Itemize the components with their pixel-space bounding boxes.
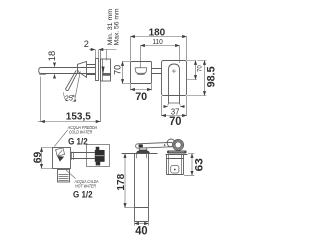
dim 69 <box>41 148 52 169</box>
svg-text:70: 70 <box>197 65 203 72</box>
svg-text:63: 63 <box>194 158 206 171</box>
knob circles <box>167 139 175 147</box>
svg-text:98.5: 98.5 <box>205 66 217 87</box>
svg-text:178: 178 <box>115 174 127 191</box>
svg-text:69: 69 <box>32 152 44 164</box>
svg-text:70: 70 <box>135 91 147 103</box>
spout mouth trough <box>135 68 147 74</box>
handle lever front <box>169 64 180 103</box>
spout base upper tier <box>139 148 147 151</box>
dim 98.5 <box>187 61 207 96</box>
arm grip dark square <box>139 144 143 147</box>
spout base lower tier <box>136 151 150 153</box>
spout base upper tier dark strip <box>139 150 147 151</box>
supply pipe plan <box>71 153 95 159</box>
cold water leader <box>54 130 68 147</box>
svg-text:2: 2 <box>84 39 89 49</box>
spout wall plate front <box>131 62 152 84</box>
wall bracket box <box>87 145 110 167</box>
in-wall body box <box>101 59 111 81</box>
handle centre cross <box>172 69 176 73</box>
dim 70 under handle plate <box>162 96 187 116</box>
dim 178 <box>124 154 134 208</box>
pipe collar <box>72 152 74 160</box>
svg-text:HOT WATER: HOT WATER <box>75 184 96 190</box>
spout side profile <box>39 68 96 74</box>
svg-text:G 1/2: G 1/2 <box>73 190 93 200</box>
svg-text:153,5: 153,5 <box>66 111 91 122</box>
wall line <box>100 50 102 122</box>
dim 180 <box>131 37 187 61</box>
lever arm top view <box>136 142 174 148</box>
svg-text:COLD WATER: COLD WATER <box>69 130 93 136</box>
svg-text:70: 70 <box>113 65 123 75</box>
right flange dark band <box>167 151 187 154</box>
connecting pipe front <box>152 69 162 74</box>
25 degree arc <box>64 92 68 101</box>
dim 70 left of spout plate <box>122 62 130 84</box>
dim 70 under spout plate <box>131 84 152 90</box>
cartridge cylinder <box>87 65 96 75</box>
window dot <box>174 169 176 171</box>
service window <box>171 166 179 174</box>
dim 2 <box>89 50 116 61</box>
dim 63 <box>184 154 194 176</box>
svg-text:25: 25 <box>65 93 73 102</box>
cartridge lever dark triangle <box>57 156 64 162</box>
dim 40 <box>135 222 149 225</box>
dim 110 <box>141 46 180 68</box>
svg-text:180: 180 <box>149 28 166 39</box>
handle wall plate front <box>162 61 187 96</box>
spout column <box>135 154 149 222</box>
hot inlet square <box>58 170 70 183</box>
dim 37 <box>164 106 185 108</box>
dim 70 right of handle <box>187 61 197 80</box>
knob shaded ring <box>174 141 183 150</box>
right flange line <box>166 154 188 156</box>
wall plate side <box>96 59 99 81</box>
lever phantom position line <box>75 71 81 99</box>
cartridge plan detail <box>56 148 65 156</box>
in-wall detail triangle <box>102 67 105 75</box>
valve column <box>167 155 184 175</box>
svg-text:Max. 56 mm: Max. 56 mm <box>114 8 121 45</box>
pipe end block <box>95 150 105 162</box>
svg-text:70: 70 <box>169 114 182 128</box>
svg-text:18: 18 <box>46 51 57 61</box>
valve body square <box>53 148 71 169</box>
svg-text:40: 40 <box>135 224 148 238</box>
dim 153,5 <box>38 77 100 123</box>
dim 18 <box>54 63 56 79</box>
aerator under spout tip <box>40 74 45 75</box>
handle lever solid <box>66 70 79 90</box>
svg-text:110: 110 <box>152 39 162 46</box>
hub cone <box>78 62 87 78</box>
left flange line <box>122 153 158 155</box>
svg-text:G 1/2: G 1/2 <box>68 136 88 146</box>
hot water leader <box>66 170 76 179</box>
